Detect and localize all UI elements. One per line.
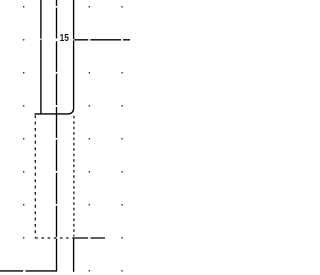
svg-text:15: 15 [60, 33, 70, 44]
white grid-dot gaps on middle vertical wire [56, 6, 58, 239]
wire vertical segment right with rounded bend into horizontal [35, 0, 74, 114]
wire bottom right corner segment [74, 238, 105, 272]
node junction yellow at net 15 wire start [73, 39, 75, 41]
white grid-dot gap on bottom right corner wire [88, 237, 90, 239]
white grid-dot gaps on net 15 wire [88, 39, 90, 41]
node junction yellow on left vertical wire [40, 39, 42, 41]
dashed outline left side [34, 115, 36, 238]
dashed outline right side [73, 116, 75, 237]
wire vertical segment middle with bottom bend to left edge [0, 0, 57, 271]
white grid-dot gap on bottom left wire [23, 270, 25, 272]
grid dots [23, 6, 123, 272]
wire vertical segment left [40, 0, 42, 115]
dashed outline bottom side [35, 237, 73, 239]
wire net 15 to right edge [73, 39, 130, 41]
